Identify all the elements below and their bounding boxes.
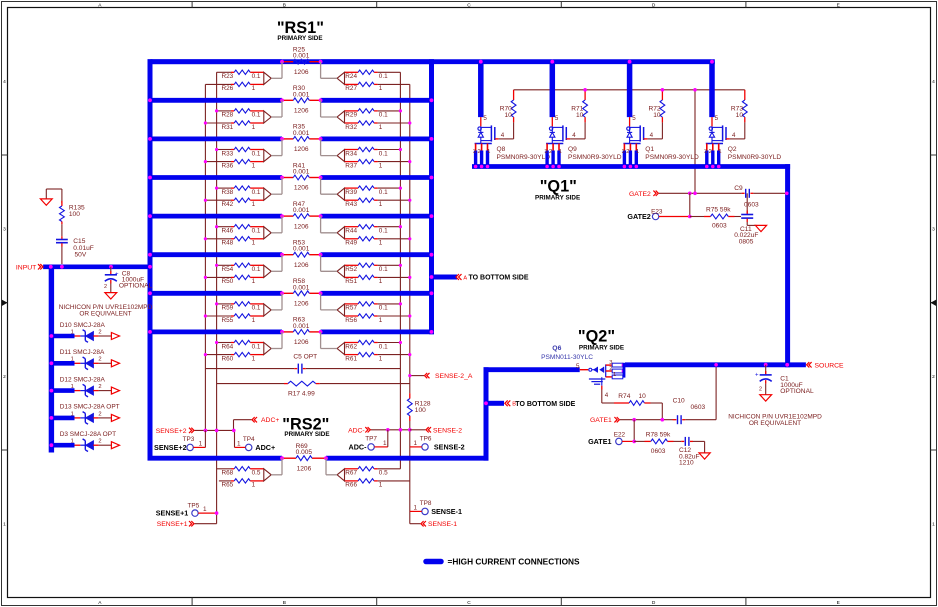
svg-text:0.1: 0.1 [379, 73, 388, 80]
svg-text:GATE2: GATE2 [627, 212, 650, 221]
svg-text:0.1: 0.1 [252, 112, 261, 119]
svg-text:D10 SMCJ-28A: D10 SMCJ-28A [60, 322, 106, 329]
svg-text:100: 100 [415, 407, 426, 414]
svg-text:2: 2 [549, 149, 552, 155]
svg-text:R54: R54 [221, 266, 233, 273]
svg-text:TP4: TP4 [243, 436, 255, 443]
svg-text:0.1: 0.1 [252, 189, 261, 196]
svg-text:0.5: 0.5 [379, 470, 388, 477]
svg-text:TP5: TP5 [188, 502, 200, 509]
svg-text:0.001: 0.001 [293, 91, 310, 98]
svg-text:0.001: 0.001 [293, 323, 310, 330]
svg-text:R75 59k: R75 59k [706, 206, 731, 213]
svg-text:ADC-: ADC- [348, 427, 365, 434]
svg-text:1: 1 [932, 521, 935, 527]
svg-text:2: 2 [3, 374, 6, 380]
svg-text:0.1: 0.1 [252, 228, 261, 235]
svg-text:1: 1 [71, 357, 74, 363]
svg-text:A: A [463, 275, 467, 281]
svg-text:1: 1 [613, 372, 616, 378]
svg-text:1206: 1206 [294, 262, 309, 269]
svg-text:B: B [283, 600, 286, 606]
svg-text:1: 1 [252, 278, 256, 285]
svg-text:ADC+: ADC+ [255, 443, 275, 452]
svg-text:4: 4 [501, 132, 505, 139]
svg-text:R46: R46 [221, 228, 233, 235]
svg-text:R28: R28 [221, 112, 233, 119]
svg-text:0805: 0805 [739, 238, 754, 245]
svg-text:0.001: 0.001 [293, 130, 310, 137]
svg-text:+: + [755, 373, 759, 379]
svg-text:SENSE+2: SENSE+2 [154, 443, 187, 452]
svg-text:R60: R60 [221, 355, 233, 362]
svg-text:D11 SMCJ-28A: D11 SMCJ-28A [60, 349, 105, 356]
svg-text:TP6: TP6 [420, 436, 432, 443]
svg-text:SENSE+1: SENSE+1 [157, 521, 188, 528]
svg-text:1: 1 [379, 278, 383, 285]
svg-text:2: 2 [759, 387, 762, 393]
svg-text:SENSE-2: SENSE-2 [434, 443, 465, 452]
svg-text:SENSE-2: SENSE-2 [433, 427, 462, 434]
svg-text:0.001: 0.001 [293, 207, 310, 214]
svg-text:0.001: 0.001 [293, 284, 310, 291]
svg-text:1206: 1206 [297, 465, 312, 472]
svg-text:1: 1 [199, 440, 203, 447]
svg-text:1: 1 [252, 162, 256, 169]
svg-text:GATE2: GATE2 [629, 191, 651, 198]
svg-text:1: 1 [379, 162, 383, 169]
svg-text:0.1: 0.1 [379, 343, 388, 350]
svg-text:10: 10 [504, 112, 512, 119]
svg-text:C5 OPT: C5 OPT [293, 354, 317, 361]
svg-text:10: 10 [639, 393, 647, 400]
svg-text:TP7: TP7 [365, 436, 377, 443]
svg-text:1: 1 [71, 329, 74, 335]
svg-text:OR EQUIVALENT: OR EQUIVALENT [79, 310, 131, 317]
svg-text:4: 4 [572, 132, 576, 139]
svg-text:0603: 0603 [651, 448, 666, 455]
svg-text:1: 1 [252, 124, 256, 131]
svg-text:OR EQUIVALENT: OR EQUIVALENT [749, 420, 801, 427]
svg-text:2: 2 [98, 411, 101, 417]
svg-text:R51: R51 [345, 278, 357, 285]
svg-text:R61: R61 [345, 355, 357, 362]
svg-text:0.1: 0.1 [252, 343, 261, 350]
svg-text:R33: R33 [221, 150, 233, 157]
svg-text:R34: R34 [345, 150, 357, 157]
svg-text:3: 3 [932, 226, 935, 232]
svg-text:E22: E22 [614, 431, 626, 438]
svg-text:0.005: 0.005 [296, 449, 313, 456]
svg-text:1: 1 [413, 440, 417, 447]
svg-text:R56: R56 [345, 317, 357, 324]
svg-text:0.1: 0.1 [252, 266, 261, 273]
svg-text:1: 1 [379, 201, 383, 208]
svg-text:TP3: TP3 [183, 436, 195, 443]
svg-text:R29: R29 [345, 112, 357, 119]
svg-text:R67: R67 [345, 470, 357, 477]
svg-text:5: 5 [483, 115, 487, 122]
svg-text:C10: C10 [673, 398, 685, 405]
svg-text:R78 59k: R78 59k [646, 431, 671, 438]
svg-text:R64: R64 [221, 343, 233, 350]
svg-text:0.1: 0.1 [252, 73, 261, 80]
svg-text:C: C [467, 3, 471, 9]
svg-text:=HIGH CURRENT CONNECTIONS: =HIGH CURRENT CONNECTIONS [448, 557, 581, 567]
svg-text:R68: R68 [221, 470, 233, 477]
svg-text:1: 1 [379, 240, 383, 247]
svg-text:100: 100 [69, 211, 80, 218]
svg-text:1206: 1206 [294, 223, 309, 230]
svg-text:1: 1 [252, 85, 256, 92]
svg-text:3: 3 [622, 149, 625, 155]
svg-text:SENSE-1: SENSE-1 [428, 521, 457, 528]
svg-text:0.1: 0.1 [379, 189, 388, 196]
svg-text:B: B [283, 3, 286, 9]
svg-text:1: 1 [203, 506, 207, 513]
svg-text:D: D [652, 3, 656, 9]
svg-text:R59: R59 [221, 305, 233, 312]
svg-text:R32: R32 [345, 124, 357, 131]
svg-text:GATE1: GATE1 [590, 417, 612, 424]
svg-text:3: 3 [544, 149, 547, 155]
svg-text:0.5: 0.5 [252, 470, 261, 477]
svg-text:SENSE+2: SENSE+2 [156, 428, 187, 435]
svg-text:PSMN0R9-30YLD: PSMN0R9-30YLD [645, 154, 699, 161]
svg-text:PRIMARY SIDE: PRIMARY SIDE [277, 35, 322, 42]
svg-text:ADC-: ADC- [349, 443, 368, 452]
svg-text:0.1: 0.1 [252, 305, 261, 312]
svg-text:PRIMARY SIDE: PRIMARY SIDE [284, 431, 329, 438]
svg-text:0.1: 0.1 [379, 228, 388, 235]
svg-text:0.1: 0.1 [379, 266, 388, 273]
svg-text:0603: 0603 [744, 202, 759, 209]
svg-text:E23: E23 [651, 209, 663, 216]
svg-text:0603: 0603 [691, 404, 706, 411]
svg-text:R24: R24 [345, 73, 357, 80]
svg-text:1: 1 [252, 317, 256, 324]
svg-text:C9: C9 [734, 185, 743, 192]
svg-text:PSMN011-30YLC: PSMN011-30YLC [541, 354, 593, 361]
svg-text:3: 3 [3, 226, 6, 232]
svg-text:1206: 1206 [294, 185, 309, 192]
svg-text:R62: R62 [345, 343, 357, 350]
svg-text:1: 1 [71, 439, 74, 445]
svg-text:1206: 1206 [294, 146, 309, 153]
svg-text:2: 2 [477, 149, 480, 155]
svg-text:1: 1 [413, 504, 417, 511]
svg-text:1: 1 [3, 521, 6, 527]
svg-text:"Q1": "Q1" [540, 178, 577, 196]
svg-text:1: 1 [252, 201, 256, 208]
svg-text:2: 2 [626, 149, 629, 155]
svg-text:R27: R27 [345, 85, 357, 92]
svg-text:R65: R65 [221, 482, 233, 489]
svg-text:D12 SMCJ-28A: D12 SMCJ-28A [60, 376, 106, 383]
svg-text:1: 1 [383, 440, 387, 447]
svg-text:1: 1 [252, 355, 256, 362]
svg-text:1: 1 [636, 149, 639, 155]
svg-text:5: 5 [632, 115, 636, 122]
svg-text:OPTIONAL: OPTIONAL [780, 388, 814, 395]
svg-text:PSMN0R9-30YLD: PSMN0R9-30YLD [568, 154, 622, 161]
svg-text:D: D [652, 600, 656, 606]
svg-text:GATE1: GATE1 [588, 437, 611, 446]
svg-text:1: 1 [252, 482, 256, 489]
svg-text:50V: 50V [75, 252, 87, 259]
svg-text:2: 2 [98, 384, 101, 390]
svg-text:R31: R31 [221, 124, 233, 131]
svg-text:Q9: Q9 [568, 146, 577, 153]
svg-text:1: 1 [237, 440, 241, 447]
svg-text:1206: 1206 [294, 339, 309, 346]
svg-text:0.1: 0.1 [379, 305, 388, 312]
svg-text:2: 2 [104, 284, 107, 290]
svg-text:R57: R57 [345, 305, 357, 312]
svg-text:1: 1 [487, 149, 490, 155]
svg-text:R44: R44 [345, 228, 357, 235]
svg-text:R74: R74 [618, 393, 630, 400]
svg-text:R17 4.99: R17 4.99 [288, 391, 315, 398]
svg-text:SOURCE: SOURCE [815, 362, 845, 369]
svg-text:4: 4 [732, 132, 736, 139]
svg-text:SENSE+1: SENSE+1 [156, 509, 189, 518]
svg-text:OPTIONAL: OPTIONAL [119, 283, 153, 290]
svg-text:0.001: 0.001 [293, 53, 310, 60]
svg-text:1206: 1206 [294, 301, 309, 308]
svg-text:5: 5 [715, 115, 719, 122]
svg-text:1: 1 [379, 124, 383, 131]
svg-text:2: 2 [98, 439, 101, 445]
svg-text:E: E [837, 3, 840, 9]
svg-text:0603: 0603 [712, 223, 727, 230]
svg-text:1: 1 [718, 149, 721, 155]
svg-text:R39: R39 [345, 189, 357, 196]
svg-text:10: 10 [736, 112, 744, 119]
svg-text:R50: R50 [221, 278, 233, 285]
svg-text:2: 2 [98, 329, 101, 335]
svg-text:10: 10 [576, 112, 584, 119]
svg-text:1: 1 [379, 355, 383, 362]
svg-text:0.1: 0.1 [379, 112, 388, 119]
svg-text:5: 5 [576, 363, 580, 370]
svg-text:Q6: Q6 [552, 345, 561, 352]
svg-text:4: 4 [3, 79, 6, 85]
svg-text:1: 1 [71, 384, 74, 390]
svg-text:D13 SMCJ-28A OPT: D13 SMCJ-28A OPT [60, 404, 120, 411]
svg-text:10: 10 [653, 112, 661, 119]
svg-text:5: 5 [555, 115, 559, 122]
svg-text:R38: R38 [221, 189, 233, 196]
svg-text:1: 1 [559, 149, 562, 155]
svg-text:D3 SMCJ-28A OPT: D3 SMCJ-28A OPT [60, 431, 116, 438]
svg-text:R43: R43 [345, 201, 357, 208]
svg-text:PRIMARY SIDE: PRIMARY SIDE [579, 344, 624, 351]
svg-text:0.001: 0.001 [293, 169, 310, 176]
svg-text:4: 4 [605, 392, 609, 399]
svg-text:R42: R42 [221, 201, 233, 208]
svg-text:3: 3 [704, 149, 707, 155]
svg-text:SENSE-1: SENSE-1 [431, 507, 462, 516]
svg-text:1: 1 [252, 240, 256, 247]
svg-text:"Q2": "Q2" [578, 328, 615, 346]
svg-text:TP8: TP8 [420, 500, 432, 507]
svg-text:TO BOTTOM SIDE: TO BOTTOM SIDE [469, 275, 529, 282]
svg-text:1206: 1206 [294, 69, 309, 76]
svg-text:1206: 1206 [294, 108, 309, 115]
svg-text:R49: R49 [345, 240, 357, 247]
svg-text:1210: 1210 [679, 460, 694, 467]
svg-text:R66: R66 [345, 482, 357, 489]
svg-text:0.1: 0.1 [379, 150, 388, 157]
svg-text:ADC+: ADC+ [261, 417, 279, 424]
svg-text:2: 2 [709, 149, 712, 155]
svg-text:Q8: Q8 [497, 146, 506, 153]
svg-text:R36: R36 [221, 162, 233, 169]
svg-text:E: E [837, 600, 840, 606]
svg-text:PSMN0R9-30YLD: PSMN0R9-30YLD [497, 154, 551, 161]
svg-text:3: 3 [473, 149, 476, 155]
svg-text:C: C [467, 600, 471, 606]
svg-text:SENSE-2_A: SENSE-2_A [435, 373, 473, 380]
svg-text:R26: R26 [221, 85, 233, 92]
svg-text:1: 1 [379, 317, 383, 324]
svg-text:Q1: Q1 [645, 146, 654, 153]
svg-text:INPUT: INPUT [16, 264, 36, 271]
svg-text:2: 2 [98, 357, 101, 363]
svg-text:R48: R48 [221, 240, 233, 247]
svg-text:Q2: Q2 [728, 146, 737, 153]
svg-text:R23: R23 [221, 73, 233, 80]
svg-text:PRIMARY SIDE: PRIMARY SIDE [535, 194, 580, 201]
svg-text:R55: R55 [221, 317, 233, 324]
svg-text:TO BOTTOM SIDE: TO BOTTOM SIDE [515, 401, 575, 408]
svg-text:0.1: 0.1 [252, 150, 261, 157]
svg-text:1: 1 [379, 482, 383, 489]
svg-text:4: 4 [650, 132, 654, 139]
svg-text:0.001: 0.001 [293, 246, 310, 253]
svg-text:2: 2 [932, 374, 935, 380]
svg-text:PSMN0R9-30YLD: PSMN0R9-30YLD [728, 154, 782, 161]
svg-text:R52: R52 [345, 266, 357, 273]
svg-text:R37: R37 [345, 162, 357, 169]
svg-text:1: 1 [379, 85, 383, 92]
svg-text:1: 1 [71, 411, 74, 417]
svg-text:4: 4 [932, 79, 935, 85]
